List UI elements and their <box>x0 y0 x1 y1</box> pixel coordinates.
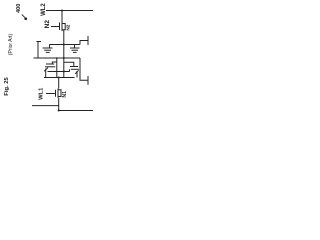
svg-text:N1: N1 <box>62 91 68 98</box>
wire cross line <box>48 71 70 73</box>
transistor N2 label <box>44 20 51 29</box>
transistor TL <box>44 57 57 77</box>
junction bottom rail <box>58 77 60 79</box>
ground G2 <box>70 45 80 53</box>
net label WL2 <box>41 3 47 16</box>
net label WL1 <box>39 87 45 100</box>
caption Fig. 25 <box>4 77 10 96</box>
gate terminal stub lower right <box>87 76 89 85</box>
svg-text:WL2: WL2 <box>41 3 47 16</box>
caption (Prior Art) <box>8 33 14 55</box>
transistor N1 label <box>62 91 68 98</box>
wire bottom rail <box>44 77 75 79</box>
transistor N2 <box>51 22 65 32</box>
junction lower right line <box>58 110 60 112</box>
leader dot <box>24 17 27 20</box>
transistor N1 <box>46 89 61 99</box>
ground G1 <box>43 45 53 53</box>
gate terminal stub upper right <box>80 36 88 45</box>
svg-text:400: 400 <box>16 4 22 13</box>
wire WL2 rail <box>46 10 93 12</box>
junction on WL2 rail <box>61 10 63 12</box>
junction cross line <box>63 71 65 73</box>
wire T1 drain <box>61 11 63 22</box>
wire N1 drain <box>58 78 60 89</box>
wire BL lower-right line <box>59 110 93 112</box>
reference numeral 400 <box>16 4 22 13</box>
svg-text:N2: N2 <box>44 20 51 29</box>
transistor TR <box>64 58 79 78</box>
wire node rail <box>34 57 81 59</box>
leader line from 400 <box>22 14 25 17</box>
svg-text:(Prior Art): (Prior Art) <box>8 33 14 55</box>
wire right vertical to lower stub <box>80 58 88 80</box>
junction node rail <box>63 57 65 59</box>
svg-text:N2: N2 <box>65 24 71 30</box>
svg-text:Fig. 25: Fig. 25 <box>4 77 10 96</box>
junction mid rail <box>63 44 65 46</box>
wire left vertical with cap <box>37 42 42 59</box>
transistor N2 right designator <box>65 24 71 30</box>
wire mid rail <box>50 44 81 46</box>
svg-text:WL1: WL1 <box>39 87 45 100</box>
wire BL lower-left line <box>32 105 59 107</box>
wire N1 source <box>58 98 60 111</box>
wire N2 source to rails <box>63 30 65 58</box>
